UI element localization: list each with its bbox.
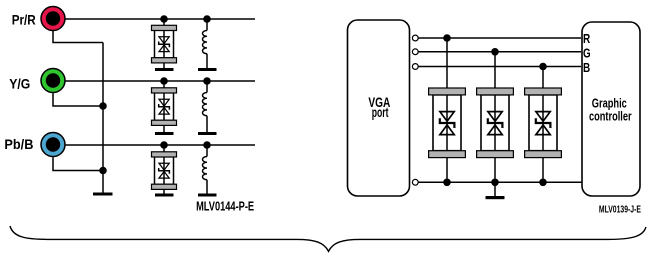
svg-text:MLV0144-P-E: MLV0144-P-E [196,199,254,214]
pin VGA R [412,35,418,41]
junction L3 on wire [203,141,211,149]
wire Pb/B shield to ground bus [53,157,103,171]
pin VGA G [412,49,418,55]
ground (right circuit) [486,182,505,199]
inductor L1 (Pr/R) [203,19,208,68]
junction RV5 bottom [491,179,499,187]
wire Y/G shield to ground bus [53,93,103,107]
wire G [418,51,581,53]
ground (L1) [198,68,217,71]
wire ground bus [102,43,104,194]
Graphic controller U2 [582,22,640,196]
svg-text:G: G [583,45,591,60]
svg-text:Pb/B: Pb/B [4,136,33,152]
junction RV1 on wire [160,15,168,23]
junction RV4 bottom [443,179,451,187]
VGA port U1 [348,20,410,196]
ground (RV3) [155,194,174,197]
inductor L3 (Pb/B) [203,145,208,194]
svg-text:port: port [372,105,389,120]
junction Pb/B shield on bus [99,167,107,175]
wire B [418,66,581,68]
varistor RV4 (R line) [429,38,466,182]
varistor RV6 (B line) [525,67,562,183]
junction L1 on wire [203,15,211,23]
junction RV2 on wire [160,77,168,85]
pin VGA ground [412,179,418,185]
wire R [418,37,581,39]
connector J2 Y/G [41,69,65,93]
connector J1 Pr/R [41,7,65,31]
wire Pr/R shield to ground bus [53,31,103,43]
ground (RV2) [155,132,174,135]
svg-text:Pr/R: Pr/R [12,12,36,28]
svg-text:Y/G: Y/G [9,75,30,91]
varistor RV1 (Pr/R) [152,19,177,68]
junction L2 on wire [203,77,211,85]
varistor RV2 (Y/G) [152,81,177,132]
varistor RV5 (G line) [477,52,514,183]
junction Y/G shield on bus [99,102,107,110]
junction RV4 top on R [443,34,451,42]
pin VGA B [412,64,418,70]
junction RV5 top on G [491,48,499,56]
ground (L2) [198,132,217,135]
svg-text:B: B [583,60,590,75]
wire ground return [418,181,583,183]
junction RV6 bottom [539,179,547,187]
wire Pr/R row [65,18,255,20]
svg-text:MLV0139-J-E: MLV0139-J-E [599,205,641,216]
junction RV6 top on B [539,63,547,71]
brace (spans both circuits) [10,226,646,251]
connector J3 Pb/B [41,133,65,157]
inductor L2 (Y/G) [203,81,208,132]
svg-text:R: R [583,31,591,46]
ground (bus) [93,193,113,196]
ground (L3) [198,194,217,197]
svg-text:controller: controller [589,109,632,123]
wire Y/G row [65,80,255,82]
wire Pb/B row [65,144,255,146]
junction RV3 on wire [160,141,168,149]
ground (RV1) [155,68,174,71]
varistor RV3 (Pb/B) [152,145,177,194]
